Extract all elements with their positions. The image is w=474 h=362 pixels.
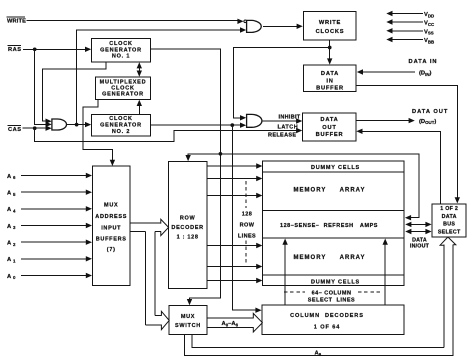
svg-text:BUFFER: BUFFER [316,85,344,91]
svg-text:BUFFER: BUFFER [316,132,344,138]
wire row line 3 [207,195,257,197]
junction node RAS branch [33,47,37,51]
svg-text:LINES: LINES [238,233,256,239]
svg-text:CAS: CAS [8,127,22,133]
wire U2 output to CG2 [66,124,86,126]
input A3 label [7,224,16,230]
label DATA OUT [412,109,448,115]
pin arrowhead U2 input 1 [46,119,52,124]
svg-text:A3: A3 [7,224,16,230]
svg-text:IN/OUT: IN/OUT [410,244,430,250]
pin arrowhead into buffers top [110,160,115,166]
box 1 OF 2 DATA BUS SELECT [432,204,466,237]
svg-text:BUFFERS: BUFFERS [96,236,127,242]
pin arrowhead U2 input 3 [46,126,52,131]
pin arrowhead U3 input 2 [240,123,246,128]
svg-text:1 OF 2: 1 OF 2 [440,206,458,212]
svg-text:CLOCKS: CLOCKS [316,29,345,35]
svg-text:DUMMY CELLS: DUMMY CELLS [311,279,360,285]
wire row line 6 [207,280,257,282]
wire CG1 to mult clock gen double arrow [138,64,140,75]
wire data io line 2 bidirectional [410,223,427,225]
wire CG2 output to gate U3 [150,124,240,126]
wire WRITE to gate U1 [27,20,239,22]
svg-text:64– COLUMN: 64– COLUMN [312,290,352,296]
supply VDD arrow [392,13,423,15]
box memory block outer [263,161,405,286]
gate U2 AND CAS gate [52,119,67,130]
label memory array 2 [294,255,366,261]
pin arrowhead into CG2 [85,122,91,127]
label 64 COLUMN SELECT LINES [308,290,355,303]
svg-text:WRITE: WRITE [319,20,341,26]
svg-text:A0: A0 [7,274,16,280]
svg-text:LATCH: LATCH [278,125,299,131]
svg-text:DATA OUT: DATA OUT [412,109,448,115]
input A4 label [7,207,16,213]
svg-text:DATA: DATA [442,214,457,220]
label A0-A6 bus [222,321,239,327]
box MUX SWITCH [169,306,207,335]
supply VBB arrow [392,39,423,41]
pin arrowhead up into mult bottom [137,100,142,106]
wire data io line 3 bidirectional [410,231,427,233]
wire column select line right [384,244,386,306]
wire mult clock output to mux address buffers [83,100,112,163]
wire bus select up to data out buffer [361,131,440,204]
svg-text:GENERATOR: GENERATOR [102,92,144,98]
pin arrowhead latch/release into data out buffer [296,128,302,133]
junction node CAS branch [33,126,37,130]
wire input A0 [21,275,87,277]
pin arrowhead down into mult top [137,71,142,77]
net RAS label [8,47,22,53]
wire WRITE CLOCKS output down to data in buffer [329,40,331,61]
wire CAS into gate U2 [23,127,47,129]
supply VCC label [424,21,435,27]
supply VBB label [424,38,434,44]
wire CG2 bus down to column decoders [232,125,256,310]
wire DOUT output [356,120,409,122]
junction node write clock [328,46,332,50]
box DATA IN BUFFER [304,65,356,92]
svg-text:A2: A2 [7,241,16,247]
input A5 label [7,191,16,197]
net WRITE overline [7,16,26,18]
svg-text:VDD: VDD [424,12,434,18]
wire CAS-clock up to U1 input 2 [77,30,240,124]
junction node CG1 bus / row clock line [219,152,223,156]
label DATA IN [409,59,438,65]
svg-text:MUX: MUX [104,203,118,209]
label memory array 1 [294,188,366,194]
svg-text:DUMMY CELLS: DUMMY CELLS [311,165,360,171]
pin arrowhead into mux switch top [187,299,192,305]
divider memory array 1 bottom [263,210,405,212]
svg-text:DECODER: DECODER [171,225,203,231]
wire row line 5 [207,266,257,268]
supply VSS label [424,29,434,35]
svg-text:CLOCK: CLOCK [111,86,135,92]
wire row line 4 [207,245,257,247]
svg-text:128: 128 [242,211,252,217]
svg-text:1 : 128: 1 : 128 [177,235,199,241]
input A0 label [7,274,16,280]
svg-text:DATA IN: DATA IN [409,59,438,65]
pin arrowhead into CG1 [85,47,91,52]
pin arrowhead into memory right edge [405,215,411,220]
wire row line 1 [207,165,257,167]
svg-text:MEMORY ARRAY: MEMORY ARRAY [294,255,366,261]
bus mux address buffers to row decoder and mux switch [130,223,161,231]
svg-text:NO. 1: NO. 1 [112,54,130,60]
pin arrowhead into data in buffer top [327,58,332,64]
wire CG2 to mult clock gen [138,102,140,115]
label DATA IN/OUT [410,237,430,249]
junction node CG2 bus [230,123,234,127]
svg-text:WRITE: WRITE [7,18,26,24]
svg-text:IN: IN [326,78,333,84]
box CLOCK GENERATOR NO.2 [92,115,151,137]
label INHIBIT [279,115,301,121]
wire input A4 [21,208,87,210]
svg-text:RAS: RAS [8,47,22,53]
wire U3 output to data out buffer [262,120,297,122]
svg-text:A6: A6 [315,351,322,357]
svg-text:SELECT LINES: SELECT LINES [308,298,355,304]
svg-text:A0–A6: A0–A6 [222,321,239,327]
net WRITE label [7,18,26,24]
wire input A3 [21,225,87,227]
svg-text:(DIN): (DIN) [419,71,432,77]
label DOUT [419,119,436,125]
net RAS overline [8,44,22,46]
pin arrowhead into column decoders left [255,308,261,313]
label sense refresh amps [280,223,378,229]
input A2 label [7,241,16,247]
label LATCH [278,125,299,131]
label RELEASE [268,133,296,139]
svg-text:DATA: DATA [320,117,338,123]
box COLUMN DECODERS [262,305,404,335]
input A1 label [7,257,16,263]
svg-text:DATA: DATA [321,71,339,77]
svg-text:(DOUT): (DOUT) [419,119,436,125]
wire write clock branch to gate U3 input 1 [234,48,330,118]
svg-text:A5: A5 [7,191,16,197]
svg-text:MUX: MUX [181,314,195,320]
svg-text:1 OF 64: 1 OF 64 [314,324,341,330]
pin arrowhead into write clocks box [297,24,303,29]
svg-text:MULTIPLEXED: MULTIPLEXED [100,79,147,85]
svg-text:INHIBIT: INHIBIT [279,115,301,121]
divider memory array 2 bottom [263,274,405,276]
svg-text:GENERATOR: GENERATOR [100,123,142,129]
supply VSS arrow [392,30,423,32]
svg-text:DATA: DATA [412,237,427,243]
input A6 label [7,174,16,180]
svg-text:ADDRESS: ADDRESS [95,214,127,220]
box DATA OUT BUFFER [303,113,356,141]
wire data in buffer to bus select [356,85,457,199]
svg-text:VCC: VCC [424,21,435,27]
pin arrowhead up into CG1 bottom [137,62,142,68]
node 128 row lines dashed [245,181,247,208]
divider dummy cells top [263,171,405,173]
svg-text:GENERATOR: GENERATOR [100,47,142,53]
pin arrowhead into row decoder top [185,155,190,161]
wire CAS branch to latch/release input [35,128,297,141]
svg-text:MEMORY ARRAY: MEMORY ARRAY [294,188,366,194]
svg-text:ROW: ROW [180,216,196,222]
node 64 column select lines dashed [284,291,305,293]
junction node CAS clock [75,123,79,127]
pin arrowhead inhibit into data out buffer [296,118,302,123]
box WRITE CLOCKS [304,12,356,40]
gate U3 AND inhibit gate [247,114,262,127]
wire U1 output to write clocks box [263,25,298,27]
pin arrowhead U1 input 2 [240,27,246,32]
svg-text:128–SENSE– REFRESH AMPS: 128–SENSE– REFRESH AMPS [280,223,378,229]
svg-text:VBB: VBB [424,38,434,44]
wire input A6 [21,175,87,177]
svg-text:COLUMN DECODERS: COLUMN DECODERS [290,313,364,319]
svg-text:CLOCK: CLOCK [109,116,133,122]
pin arrowhead U3 input 1 [240,115,246,120]
svg-text:ROW: ROW [240,222,255,228]
svg-text:(7): (7) [107,247,116,253]
svg-text:SELECT: SELECT [438,229,461,235]
svg-text:INPUT: INPUT [101,225,121,231]
svg-text:A1: A1 [7,257,16,263]
svg-text:NO. 2: NO. 2 [112,129,130,135]
divider sense amps bottom [263,237,405,239]
svg-text:RELEASE: RELEASE [268,133,296,139]
wire RAS to clock generator no.1 [23,48,86,50]
svg-text:A6: A6 [7,174,16,180]
pin arrowhead U2 input 2 [46,122,52,127]
wire CG1 output bus down to mux switch [150,49,220,303]
svg-text:A4: A4 [7,207,16,213]
svg-text:OUT: OUT [322,125,336,131]
supply VCC arrow [392,21,423,23]
box MUX ADDRESS INPUT BUFFERS [93,166,131,286]
supply VDD label [424,12,434,18]
svg-text:VSS: VSS [424,29,434,35]
box CLOCK GENERATOR NO.1 [92,39,151,62]
pin arrowhead U1 input 1 [237,19,243,24]
wire row line 2 [207,178,257,180]
pin arrowhead into data out buffer right [356,129,362,134]
wire input A2 [21,241,87,243]
net CAS label [8,127,22,133]
bus A6 mux switch bottom to data bus select [184,244,453,355]
box MULTIPLEXED CLOCK GENERATOR [95,77,150,99]
wire input A5 [21,191,87,193]
svg-text:CLOCK: CLOCK [109,41,133,47]
bubble U1 input 1 [244,20,247,23]
label DIN [419,71,432,77]
box ROW DECODER [168,162,207,289]
wire row clock line to row decoder and memory [188,154,419,218]
pin arrowhead down into bus select top [455,197,460,203]
label 128 ROW LINES [238,211,256,239]
label dummy cells bottom [311,279,360,285]
wire DIN input into data in buffer [361,71,415,73]
wire RAS branch down to gate U2 [35,49,46,124]
svg-text:SWITCH: SWITCH [175,323,201,329]
wire CG1 bottom feedback to gate U2 [43,62,106,121]
bus mux switch to column decoders A0-A6 [207,318,253,328]
label A6 bus [315,351,322,357]
wire column select line left [284,244,286,306]
gate U1 AND write-clocks gate [247,20,262,32]
svg-text:BUS: BUS [443,222,455,228]
wire input A1 [21,258,87,260]
net CAS overline [8,124,22,126]
label dummy cells top [311,165,360,171]
